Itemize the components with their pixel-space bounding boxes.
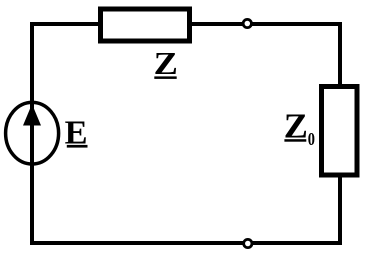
source E (circle) — [6, 102, 59, 164]
wire left — [30, 22, 34, 245]
impedance Z (box) — [101, 9, 190, 41]
label E underline — [67, 145, 88, 148]
svg-text:0: 0 — [308, 129, 315, 149]
wire through source — [30, 100, 34, 166]
wire top — [30, 22, 342, 26]
terminal node bottom — [244, 239, 252, 247]
label Z underline — [154, 76, 176, 79]
wire bottom — [30, 241, 342, 245]
label E — [65, 113, 88, 151]
label Z — [154, 47, 178, 81]
source E arrow — [23, 104, 41, 126]
wire right — [338, 22, 342, 245]
label Z0 underline — [284, 139, 306, 142]
label Z0 subscript 0 — [308, 129, 315, 149]
label Z0 (Z) — [284, 106, 308, 145]
terminal node top — [243, 19, 251, 27]
impedance Z0 (box) — [322, 87, 358, 176]
